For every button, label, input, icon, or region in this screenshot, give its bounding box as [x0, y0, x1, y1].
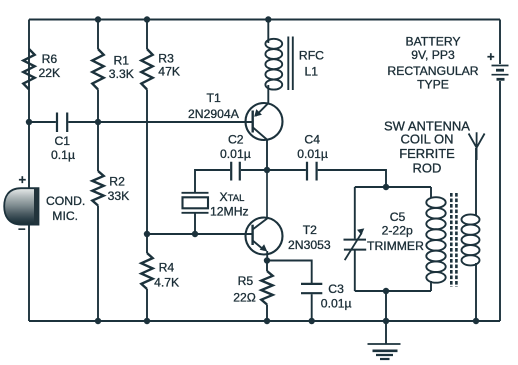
crystal X1 top plate [182, 192, 209, 194]
microphone flat back plate [34, 188, 39, 224]
svg-text:C2: C2 [228, 133, 244, 147]
svg-text:+: + [487, 49, 495, 64]
wire R1 to C1 node [97, 89, 99, 122]
condenser microphone body [4, 188, 38, 224]
inductor RFC L1 loops [265, 39, 282, 90]
wire RFC top lead [267, 20, 269, 44]
wire T2 base row [147, 233, 253, 235]
transistor T1 collector lead [253, 128, 267, 140]
node top RFC [265, 16, 271, 22]
svg-text:R1: R1 [114, 54, 130, 68]
transformer primary top jog [430, 187, 432, 198]
svg-text:2N3053: 2N3053 [288, 238, 331, 252]
transformer primary winding [426, 197, 445, 283]
svg-text:0.01µ: 0.01µ [220, 147, 251, 161]
node tank bottom [383, 288, 389, 294]
wire C1 left lead [29, 121, 56, 123]
transistor T2 collector lead [253, 218, 268, 229]
resistor R4 lead top [146, 234, 148, 253]
wire crystal bottom to base row [194, 213, 196, 234]
svg-text:RECTANGULAR: RECTANGULAR [387, 64, 478, 78]
svg-text:C1: C1 [55, 134, 71, 148]
wire C2 right lead [241, 169, 267, 171]
svg-text:R6: R6 [42, 52, 58, 66]
svg-text:0.1µ: 0.1µ [51, 148, 75, 162]
node top R3 [144, 16, 150, 22]
svg-text:22K: 22K [39, 66, 61, 80]
trimmer C5 plates [344, 240, 367, 250]
transistor T2 base bar [251, 225, 253, 245]
wire R3 down to base row [146, 89, 148, 234]
node crystal bottom [192, 231, 198, 237]
resistor R4 [141, 253, 152, 289]
svg-text:4.7K: 4.7K [154, 275, 179, 289]
wire R2 node down [97, 122, 99, 171]
wire left rail [28, 20, 30, 322]
transistor T1 base bar [251, 111, 253, 133]
svg-text:0.01µ: 0.01µ [297, 147, 328, 161]
wire R5 node to resistor [266, 261, 268, 272]
svg-text:TRIMMER: TRIMMER [367, 239, 424, 253]
capacitor C1 [57, 113, 67, 133]
svg-text:R2: R2 [109, 175, 125, 189]
node base row left [144, 231, 150, 237]
wire tank bottom node down to rail [385, 291, 387, 321]
svg-text:FERRITE: FERRITE [399, 146, 455, 161]
wire right rail upper (battery feed) [499, 20, 501, 65]
transformer core dashed bars [451, 193, 456, 287]
wire secondary bottom to rail [475, 263, 477, 321]
wire top rail [29, 19, 500, 21]
trimmer C5 arrow [345, 233, 362, 260]
antenna feed wire down to secondary [475, 148, 477, 216]
transistor T1 circle [246, 103, 283, 140]
resistor R3 [141, 49, 152, 89]
node rail R4 [144, 318, 150, 324]
svg-text:22Ω: 22Ω [233, 291, 256, 305]
svg-text:XTAL: XTAL [220, 190, 245, 204]
wire R2 bottom to rail [97, 206, 99, 322]
svg-text:C3: C3 [328, 282, 344, 296]
svg-text:9V, PP3: 9V, PP3 [411, 48, 455, 62]
node rail ground [383, 318, 389, 324]
wire right rail lower [499, 81, 501, 321]
svg-text:TYPE: TYPE [417, 78, 449, 92]
wire R3 column upper [146, 20, 148, 50]
svg-text:ROD: ROD [413, 161, 442, 176]
transistor T2 emitter arrowhead [260, 244, 268, 251]
svg-text:C5: C5 [390, 210, 406, 224]
svg-text:3.3K: 3.3K [109, 67, 134, 81]
wire C3 branch top [267, 261, 312, 284]
inductor L1 core bars [288, 37, 293, 91]
resistor R5 [261, 271, 272, 304]
wire T2 emitter to R5 node [266, 251, 268, 261]
transformer secondary winding [462, 214, 480, 265]
wire tank bottom [355, 290, 431, 292]
node T1-T2 C2/C4 [264, 167, 270, 173]
wire tank left with trimmer gap [354, 187, 356, 291]
svg-text:C4: C4 [304, 133, 320, 147]
antenna symbol [469, 132, 485, 160]
node tank top [383, 184, 389, 190]
wire C2 left lead and down to crystal [195, 170, 230, 193]
wire R4 bottom to rail [146, 289, 148, 321]
svg-text:BATTERY: BATTERY [405, 34, 460, 48]
wire T2 collector up to node [266, 170, 268, 219]
transistor T2 circle [246, 218, 283, 255]
svg-text:2N2904A: 2N2904A [188, 107, 240, 121]
capacitor C4 [307, 162, 317, 181]
trimmer C5 arrowhead [357, 228, 364, 235]
wire R5 bottom to rail [266, 305, 268, 322]
crystal X1 body [183, 197, 209, 208]
node top R1 [95, 16, 101, 22]
wire bottom rail [29, 320, 500, 322]
wire C3 bottom to rail [311, 294, 313, 321]
wire C1 to R1 node and T1 base [68, 121, 252, 123]
crystal X1 bottom plate [182, 212, 209, 214]
svg-text:T2: T2 [303, 223, 317, 237]
svg-text:2-22p: 2-22p [382, 223, 413, 237]
transistor T2 emitter lead [253, 241, 264, 251]
svg-text:+: + [19, 172, 27, 187]
node rail secondary [473, 318, 479, 324]
capacitor C2 [231, 162, 240, 181]
wire RFC bottom to T1 collector [267, 85, 269, 103]
node rail C3 [309, 318, 315, 324]
svg-text:47K: 47K [158, 65, 180, 79]
transistor T1 emitter arrowhead [254, 109, 262, 117]
svg-text:R4: R4 [159, 261, 175, 275]
svg-text:R3: R3 [158, 52, 174, 66]
svg-text:T1: T1 [207, 91, 221, 105]
svg-text:0.01µ: 0.01µ [321, 297, 352, 311]
svg-text:COND.: COND. [46, 194, 85, 208]
node rail R2 [95, 318, 101, 324]
wire tank top [355, 186, 431, 188]
resistor R1 [92, 49, 103, 89]
capacitor C3 [301, 284, 322, 293]
svg-text:R5: R5 [238, 274, 254, 288]
node rail R5 [264, 318, 270, 324]
resistor R2 [92, 171, 103, 205]
svg-text:L1: L1 [305, 65, 319, 79]
svg-text:12MHz: 12MHz [210, 205, 249, 219]
node T2 emitter [264, 257, 270, 263]
battery B1 plates [492, 65, 509, 67]
node C1 left [26, 119, 32, 125]
wire C4 right run to tank [267, 170, 386, 187]
transformer primary bottom jog [430, 281, 432, 291]
ground symbol [385, 321, 387, 344]
transistor T1 emitter lead with arrow [256, 103, 269, 116]
wire T1 collector to C2/C4 node [266, 140, 268, 170]
svg-text:COIL ON: COIL ON [401, 132, 454, 147]
resistor R6 [23, 49, 34, 89]
svg-text:33K: 33K [108, 189, 130, 203]
svg-text:−: − [18, 222, 26, 237]
svg-text:MIC.: MIC. [52, 209, 78, 223]
node C1 right / R1-R2 [95, 119, 101, 125]
wire R1 column upper [97, 20, 99, 50]
svg-text:RFC: RFC [299, 49, 324, 63]
